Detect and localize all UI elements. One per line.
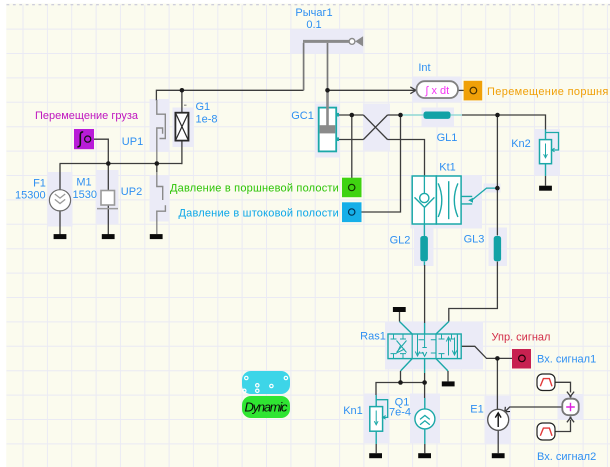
- junction (424.6,382.5): [422, 380, 427, 385]
- svg-text:G1: G1: [196, 101, 211, 113]
- junction (181.9,90.3): [180, 88, 185, 93]
- position sensor (Перемещение груза): [35, 110, 139, 149]
- wire: Q1 to ground: [424, 429, 426, 453]
- hard stop UP2: [121, 172, 166, 234]
- wire: J2 down to rod-pressure sensor: [355, 115, 400, 212]
- svg-text:Рычаг1: Рычаг1: [295, 7, 332, 19]
- ground (Kn1): [369, 453, 382, 458]
- wire: GL3 down and across to valve: [449, 262, 498, 322]
- hydraulic line GL1: [424, 112, 458, 145]
- gap/backlash G1: [175, 101, 217, 141]
- wire: valve top-right port diagonal: [436, 322, 449, 335]
- svg-text:Int: Int: [418, 62, 430, 74]
- wire: valve pilot port to control node: [461, 346, 518, 358]
- svg-text:0.1: 0.1: [306, 19, 321, 31]
- svg-text:Давление в штоковой полости: Давление в штоковой полости: [178, 208, 339, 220]
- junction (497.4,358.4): [495, 356, 500, 361]
- ground (Q1): [418, 453, 431, 458]
- wire: force source F1 riser: [59, 164, 61, 190]
- pulse source Вх. сигнал1: [537, 374, 555, 391]
- rod-cavity pressure sensor: [178, 202, 361, 222]
- junction (156.8,163.5): [155, 161, 160, 166]
- wire: integrator output to piston-position sensor: [458, 89, 470, 91]
- svg-text:F1: F1: [33, 178, 46, 190]
- wire: Kt1 control diagonal: [472, 188, 498, 200]
- wire: GL1 to Kn2 drop: [462, 115, 546, 130]
- junction (400.5,115): [398, 113, 403, 118]
- wire: crossing diagonal rod side: [363, 115, 387, 140]
- wire: J6 to pump Q1: [424, 383, 426, 409]
- wire: Kn1 upper stem: [375, 395, 377, 407]
- junction (497.4,188.1): [495, 186, 500, 191]
- svg-text:GL3: GL3: [464, 234, 485, 246]
- svg-text:UP2: UP2: [121, 186, 142, 198]
- svg-text:Вх. сигнал1: Вх. сигнал1: [537, 354, 596, 366]
- wire: GL2 chain Kt1 to valve: [423, 224, 425, 334]
- svg-text:7e-4: 7e-4: [389, 407, 411, 419]
- lever Рычаг1: [295, 7, 363, 90]
- svg-text:Kn1: Kn1: [343, 405, 363, 417]
- wire: G1 bottom branch: [181, 141, 183, 165]
- wire: crossing diagonal piston side: [363, 115, 387, 140]
- svg-text:1e-8: 1e-8: [196, 114, 218, 126]
- mass M1: [73, 177, 119, 209]
- pulse source Вх. сигнал2: [537, 423, 596, 463]
- junction (351.8,115): [350, 113, 355, 118]
- svg-text:E1: E1: [470, 404, 483, 416]
- wire: mass M1 riser: [107, 164, 109, 191]
- Dynamic logo: [242, 371, 290, 418]
- ground (UP2): [150, 234, 163, 239]
- wire: E1 to ground: [497, 430, 499, 453]
- ground (valve bottom-right, tank): [442, 381, 455, 386]
- wire: position sensor to bus: [91, 139, 108, 163]
- hydraulic line GL2: [390, 235, 428, 262]
- svg-text:Ras1: Ras1: [360, 331, 386, 343]
- svg-text:GL1: GL1: [437, 132, 458, 144]
- voltage/effort source E1: [470, 404, 508, 431]
- wire: pulse source 2 to adder: [555, 417, 574, 432]
- svg-text:Перемещение груза: Перемещение груза: [35, 110, 139, 122]
- wire: piston line to throttle Kt1: [388, 140, 425, 177]
- wire: valve bottom-left port to J5: [401, 359, 413, 383]
- wire: valve top-left port to ground: [400, 312, 413, 334]
- adder (+): [562, 399, 578, 415]
- junction (327.5,90.3): [325, 88, 330, 93]
- wire: valve bottom-right port to ground: [436, 359, 448, 382]
- directional valve Ras1: [360, 331, 461, 359]
- wire: UP2 junction stub: [156, 164, 158, 173]
- ground (F1): [54, 234, 67, 239]
- wire: J3 down through Kt1 control to GL3: [496, 115, 498, 236]
- wire: lower mechanical bus y=163.5: [60, 163, 182, 165]
- wire: control node down to E1: [496, 358, 498, 409]
- ground (M1): [102, 234, 115, 239]
- relief valve Kn1: [343, 400, 387, 432]
- svg-text:Dynamic: Dynamic: [245, 400, 289, 415]
- svg-text:Вх. сигнал2: Вх. сигнал2: [537, 451, 596, 463]
- control signal sensor (Упр. сигнал): [492, 332, 597, 369]
- svg-text:M1: M1: [76, 177, 91, 189]
- junction (497.5,115): [495, 113, 500, 118]
- junction (400.5,382.5): [398, 380, 403, 385]
- wire: M1 to ground: [107, 205, 109, 235]
- svg-text:GL2: GL2: [390, 235, 411, 247]
- wire: adder to E1 with arrow: [505, 407, 562, 412]
- wire: lever left pin to UP1 (mech net, y=90): [156, 90, 303, 100]
- wire: rod junction to integrator input: [328, 87, 416, 94]
- ground (E1): [492, 453, 505, 458]
- svg-text:∫ x dt: ∫ x dt: [424, 85, 449, 97]
- wire: valve bottom-center port to J6: [424, 359, 426, 383]
- wire: GL1 pale stems: [402, 114, 463, 116]
- svg-text:Kt1: Kt1: [439, 162, 456, 174]
- piston-cavity pressure sensor: [170, 178, 362, 198]
- svg-text:UP1: UP1: [122, 136, 143, 148]
- svg-text:Давление в поршневой полости: Давление в поршневой полости: [170, 183, 339, 195]
- wire: tank bus y=382.5: [376, 383, 425, 396]
- hydraulic cylinder GC1: [291, 90, 339, 151]
- svg-text:1530: 1530: [73, 189, 97, 201]
- wire: Kn1 to ground: [375, 431, 377, 453]
- piston displacement sensor (Перемещение поршня): [464, 81, 609, 101]
- wire: GC1 rod port: [339, 139, 364, 141]
- svg-text:Kn2: Kn2: [511, 138, 531, 150]
- force source F1: [15, 178, 71, 211]
- hydraulic line GL3: [464, 234, 501, 262]
- wire: pulse source 1 to adder: [555, 382, 574, 397]
- svg-text:15300: 15300: [15, 190, 46, 202]
- flow source Q1: [389, 397, 435, 429]
- hard stop UP1: [122, 100, 166, 164]
- svg-text:GC1: GC1: [291, 110, 314, 122]
- wire: to J2: [388, 114, 402, 116]
- wire: GC1 piston port to J1: [339, 114, 364, 116]
- ground (Kn2): [539, 186, 552, 191]
- relief valve Kn2: [511, 133, 558, 164]
- wire: J1 down to piston-pressure sensor: [351, 115, 353, 184]
- controlled throttle Kt1: [412, 162, 473, 225]
- svg-text:Перемещение поршня: Перемещение поршня: [487, 86, 609, 98]
- svg-text:Упр. сигнал: Упр. сигнал: [492, 332, 551, 344]
- junction (108.3,163.5): [106, 161, 111, 166]
- wire: Kn2 stems: [545, 130, 547, 186]
- ground (valve top-left, tank): [393, 307, 406, 312]
- wire: F1 to ground: [59, 211, 61, 235]
- integrator Int: [417, 62, 459, 98]
- wire: G1 top branch: [181, 90, 183, 112]
